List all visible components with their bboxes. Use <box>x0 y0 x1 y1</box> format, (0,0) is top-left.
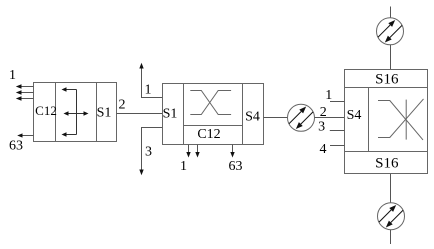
svg-text:S1: S1 <box>97 106 112 121</box>
svg-text:3: 3 <box>318 119 325 134</box>
svg-text:63: 63 <box>9 139 23 154</box>
svg-text:1: 1 <box>145 83 152 98</box>
svg-text:1: 1 <box>325 88 332 103</box>
svg-text:1: 1 <box>9 68 16 83</box>
svg-text:2: 2 <box>320 105 327 120</box>
svg-text:3: 3 <box>145 145 152 160</box>
svg-text:S4: S4 <box>347 108 362 123</box>
svg-text:C12: C12 <box>197 127 220 142</box>
svg-text:1: 1 <box>180 159 187 174</box>
svg-text:2: 2 <box>119 98 126 113</box>
svg-text:63: 63 <box>229 159 243 174</box>
svg-text:S16: S16 <box>375 72 399 88</box>
svg-text:4: 4 <box>320 142 327 157</box>
svg-text:S4: S4 <box>245 110 260 125</box>
svg-text:S1: S1 <box>163 107 178 122</box>
svg-text:S16: S16 <box>375 156 399 172</box>
svg-text:C12: C12 <box>35 103 57 118</box>
